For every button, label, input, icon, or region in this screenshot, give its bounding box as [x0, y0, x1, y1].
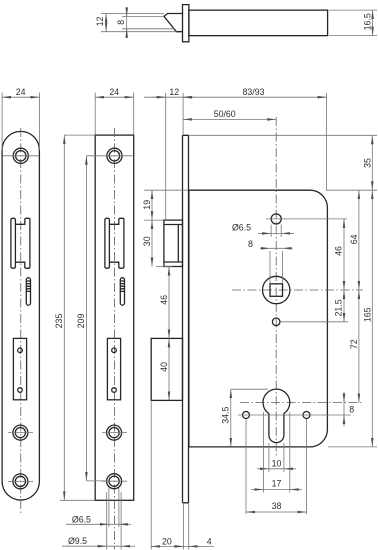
svg-text:165: 165 [362, 307, 372, 322]
dimension 38 (side holes span) [246, 419, 307, 514]
dimension 24 (faceplate 1 width) [2, 93, 39, 151]
svg-text:10: 10 [272, 458, 282, 468]
svg-text:4: 4 [207, 536, 212, 546]
dimension 235 (faceplate 2 length) [60, 135, 95, 500]
top view: lock case body [189, 10, 328, 36]
main view: latch bolt (side) [164, 220, 183, 266]
svg-text:16.5: 16.5 [362, 13, 372, 30]
faceplate 1 centerline [20, 128, 22, 515]
faceplate 1 window screws [18, 348, 23, 353]
dimension 30 (latch height) [156, 266, 172, 268]
dimension 46 (latch to deadbolt) [168, 267, 170, 339]
faceplate 2 middle screw hole [107, 425, 122, 440]
main view: top hole D6.5 [271, 214, 281, 224]
main view: follower circle [263, 276, 290, 303]
dimension 50/60 (backset) [183, 118, 276, 120]
svg-text:38: 38 [272, 501, 282, 511]
dimension 4 (faceplate thickness) [183, 503, 214, 550]
dimension D6.5 (bottom screw hole dia) [109, 487, 119, 527]
main view: side holes centerline [238, 414, 351, 416]
svg-text:8: 8 [349, 404, 354, 414]
faceplate 1 auxiliary pin [26, 278, 30, 306]
dimension 20 (deadbolt throw) [150, 400, 152, 549]
main view: deadbolt (side) [151, 338, 182, 400]
dimension 35 (faceplate top to case top) [371, 135, 373, 190]
dimension 24 (faceplate 2 width) [95, 93, 134, 136]
dimension 46 (top hole to follower) [343, 219, 345, 290]
svg-text:8: 8 [116, 20, 126, 25]
dimension 8 (follower square) [270, 248, 283, 283]
faceplate 1 top screw hole [13, 148, 28, 163]
svg-text:21.5: 21.5 [334, 299, 344, 316]
svg-text:64: 64 [349, 234, 359, 244]
dimension 12 (latch protrusion) [144, 93, 183, 219]
svg-text:46: 46 [159, 295, 169, 305]
dimension 34.5 (cylinder to case bottom) [231, 388, 268, 390]
svg-text:20: 20 [162, 536, 172, 546]
top view: extension lines for 12 and 8 [101, 13, 176, 31]
faceplate 1 (rounded ends) outline [2, 131, 39, 500]
main view: follower square 8mm [270, 284, 283, 297]
svg-text:12: 12 [95, 17, 105, 27]
faceplate 2 deadbolt window [107, 338, 120, 399]
dimension 19 (case top to latch) [144, 190, 188, 220]
faceplate 1 middle screw hole [13, 425, 28, 440]
faceplate 2 window screws [112, 348, 117, 353]
svg-text:72: 72 [349, 339, 359, 349]
faceplate 1 latch cutout [11, 218, 16, 268]
svg-text:34.5: 34.5 [221, 407, 231, 424]
faceplate 2 centerline [113, 128, 115, 549]
svg-text:24: 24 [109, 87, 119, 97]
main view: faceplate (edge-on) [183, 135, 189, 503]
svg-text:Ø9.5: Ø9.5 [68, 536, 87, 546]
dimension 209 (screw centers) [86, 156, 106, 481]
dimension 16.5 (top view case height) [329, 10, 377, 36]
svg-text:30: 30 [142, 236, 152, 246]
faceplate 2 latch cutout [105, 218, 110, 268]
svg-text:Ø6.5: Ø6.5 [232, 223, 251, 233]
dimension 8 (top view latch thickness, outside arrows) [126, 7, 128, 38]
faceplate 2 bottom screw hole [107, 474, 122, 489]
dimension 72 (follower to cylinder) [358, 290, 360, 403]
dimension 83/93 (case depth) [326, 93, 328, 191]
main view: lock case outline [189, 190, 328, 447]
right side extension lines [189, 135, 377, 447]
svg-text:17: 17 [272, 479, 282, 489]
dimension 64 (case top to follower) [358, 190, 360, 290]
main view: small hole below follower [272, 318, 280, 326]
dimension 12 (top view latch height) [105, 13, 107, 31]
dimension 21.5 (follower to small hole) [343, 290, 345, 322]
svg-text:50/60: 50/60 [214, 109, 236, 119]
faceplate 2 auxiliary pin [120, 278, 124, 306]
main view: euro profile cylinder hole [263, 389, 290, 443]
dimension 40 (deadbolt height) [168, 338, 170, 400]
dimension 10 (cylinder slot width) [269, 443, 284, 472]
dimension 165 (case height) [371, 190, 373, 447]
svg-text:19: 19 [142, 200, 152, 210]
svg-text:83/93: 83/93 [242, 87, 264, 97]
svg-text:46: 46 [334, 246, 344, 256]
dimension D6.5 (top hole dia) [271, 225, 281, 238]
top view: faceplate (end-on) [183, 5, 189, 42]
main view: cylinder horizontal centerline [240, 402, 363, 404]
svg-text:Ø6.5: Ø6.5 [72, 515, 91, 525]
faceplate 1 bottom screw hole [13, 474, 28, 489]
main view: vertical centerline [275, 117, 277, 458]
faceplate 2 (square ends) outline [95, 135, 134, 500]
dimension D9.5 (bottom screw head dia) [107, 492, 121, 550]
svg-text:40: 40 [159, 362, 169, 372]
svg-text:8: 8 [248, 239, 253, 249]
svg-text:24: 24 [16, 87, 26, 97]
dimension 8 (cylinder to side holes) [343, 392, 345, 427]
svg-text:12: 12 [169, 87, 179, 97]
top view: latch bolt with bevel [164, 14, 183, 32]
svg-text:235: 235 [54, 314, 64, 329]
main view: follower horizontal centerline [232, 289, 363, 291]
faceplate 2 top screw hole [107, 148, 122, 163]
svg-text:209: 209 [76, 314, 86, 329]
svg-text:35: 35 [362, 158, 372, 168]
dimension 17 (cylinder dia) [263, 412, 289, 493]
faceplate 1 deadbolt window [13, 338, 26, 399]
main view: cylinder side holes [243, 412, 250, 419]
